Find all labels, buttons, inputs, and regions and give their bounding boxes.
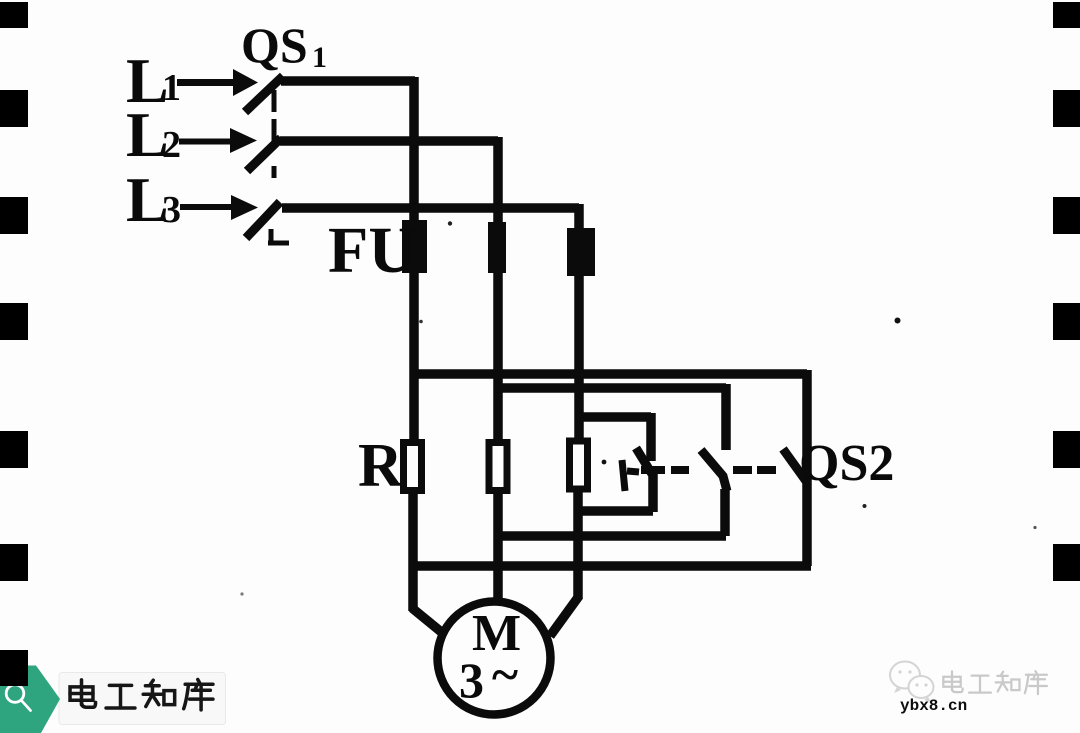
stray dot right middle [895,318,901,324]
fuse FU1 [402,220,427,273]
motor M circle [438,602,551,715]
switch QS1 pole 3 blade [246,202,280,238]
svg-text:ybx8.cn: ybx8.cn [900,697,967,715]
bottom-right wechat icon [890,662,934,703]
svg-text:R: R [358,432,404,500]
resistor R2 [489,443,507,491]
svg-text:3: 3 [162,189,181,231]
resistor R1 [404,443,422,491]
stray dot bottom left [240,592,243,595]
stray dot left of QS2 pole1 [602,460,607,465]
svg-text:QS2: QS2 [799,435,894,492]
wire V3 diagonal into motor [550,596,579,636]
stray dot near FU [448,221,452,225]
svg-text:2: 2 [162,124,181,166]
stray dot far right [1033,526,1036,529]
switch QS1 pole 3 contact seat [268,229,289,243]
svg-text:~: ~ [492,646,518,702]
bottom-right gray 电工知库 [943,671,1047,694]
wire L3 horizontal [282,203,579,213]
arrow L1 [177,69,258,96]
wire B corner vertical to QS2 pole2 [721,384,731,450]
resistor R3 [570,441,588,489]
stray dot below QS2 label [863,504,867,508]
svg-text:1: 1 [312,41,327,74]
watermark text 电工知库 (black) [70,679,213,709]
edge marks (film sprockets) left [0,2,28,686]
switch QS2 pole 1 fixed contact [622,460,639,491]
svg-text:3: 3 [459,652,484,708]
switch QS2 pole 2 blade [701,450,727,491]
wire right branch vertical QS2 pole3 feed [802,370,812,566]
watermark magnifier icon [6,685,30,711]
fuse FU2 [488,222,506,273]
watermark logo green pentagon [0,666,60,733]
wire L2 horizontal [280,136,498,146]
stray dot next to V1 [419,320,423,324]
wire bus E below resistor R2 [494,531,726,541]
fuse FU3 [567,228,595,276]
wire bus D below resistor R3 [575,506,653,516]
wire V2 lower segment to motor [493,492,503,601]
wire bus A top loop [410,369,807,379]
wire pole2 bottom drop [720,489,730,536]
wire V1 diagonal into motor [412,608,445,635]
wire bus C [575,412,651,422]
wire bus B [494,383,726,393]
switch QS1 pole 2 contact tick [272,119,277,141]
switch QS1 pole 1 blade [245,76,283,112]
wire V3 lower segment [573,491,583,599]
switch QS2 pole 3 blade [783,449,806,481]
wire L2 vertical drop x=498 [493,137,503,444]
wire L3 vertical drop x=579 [574,204,584,441]
arrow L3 [180,195,258,220]
svg-text:FU: FU [328,214,416,287]
wire L1 horizontal [281,76,415,86]
edge marks (film sprockets) right [1053,2,1080,581]
switch QS1 pole 1 contact tick [272,90,277,112]
watermark box bottom-left [59,673,226,725]
wire bus F below resistor R1 [410,561,811,571]
switch QS1 linkage dash [272,166,277,178]
wire V1 lower segment to motor [408,492,418,611]
wire pole1 bottom drop [648,472,658,512]
switch QS2 pole 1 blade [636,448,652,474]
arrow L2 [179,128,257,153]
switch QS1 pole 2 blade [247,138,281,171]
switch QS2 linkage dashes [641,466,776,474]
wire L1 vertical drop x=414 [409,77,419,444]
wire C corner vertical to QS2 pole1 [646,413,656,461]
svg-text:QS: QS [241,17,308,73]
